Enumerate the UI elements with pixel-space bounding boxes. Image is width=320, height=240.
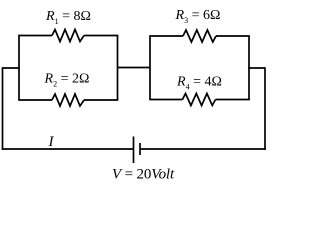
wire: right block right edge: [248, 36, 250, 100]
svg-text:R4 = 4Ω: R4 = 4Ω: [176, 74, 222, 91]
wire: bottom right: [140, 148, 266, 150]
wire: R4 right lead: [216, 99, 250, 101]
wire: R2 right lead: [84, 99, 118, 101]
svg-text:V = 20Volt: V = 20Volt: [112, 166, 175, 182]
resistor R3: [183, 30, 216, 42]
wire: R2 left lead: [18, 99, 52, 101]
wire: right outer vertical: [264, 67, 266, 150]
wire: bottom left (current I): [2, 148, 134, 150]
resistor R2: [52, 94, 84, 106]
wire: left block left edge: [18, 36, 20, 101]
wire: R3 right lead: [216, 35, 250, 37]
wire: left block right edge: [117, 36, 119, 101]
wire: R1 left lead: [18, 35, 52, 37]
resistor R4: [183, 94, 216, 106]
svg-text:R2 = 2Ω: R2 = 2Ω: [44, 71, 90, 88]
wire: R4 left lead: [149, 99, 182, 101]
wire: left outer vertical: [2, 67, 4, 150]
wire: left node stub: [3, 67, 20, 69]
svg-text:I: I: [48, 134, 55, 150]
battery V : short plate: [139, 143, 141, 155]
wire: middle rail between parallel blocks: [118, 67, 151, 69]
battery V : long plate: [133, 137, 135, 164]
wire: right node stub: [248, 67, 265, 69]
resistor R1: [52, 30, 84, 42]
wire: R1 right lead: [84, 35, 118, 37]
svg-text:R3 = 6Ω: R3 = 6Ω: [175, 8, 221, 25]
wire: R3 left lead: [149, 35, 183, 37]
svg-text:R1 = 8Ω: R1 = 8Ω: [45, 9, 91, 26]
wire: right block left edge: [149, 36, 151, 100]
